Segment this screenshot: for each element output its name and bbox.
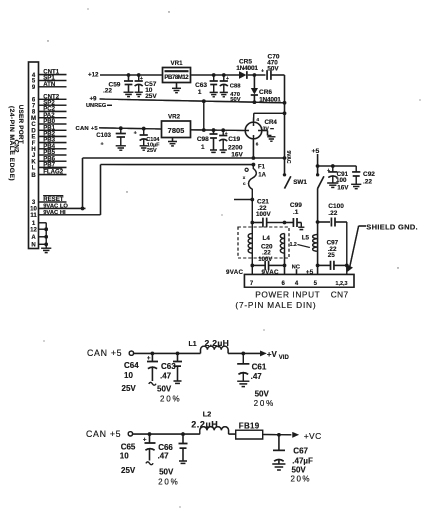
svg-text:SW1: SW1: [293, 179, 307, 186]
svg-text:N: N: [31, 243, 35, 249]
svg-text:VID: VID: [279, 355, 290, 361]
capacitor C100 .22: [318, 203, 347, 227]
svg-text:C61: C61: [252, 362, 267, 371]
wire filter2 rail: [133, 432, 200, 436]
svg-text:RESET: RESET: [43, 196, 64, 203]
svg-text:.47µF: .47µF: [292, 456, 313, 465]
capacitor C57 10 25V: [135, 75, 158, 100]
wire +12 rail after VR1: [191, 73, 240, 77]
svg-text:(7-PIN MALE DIN): (7-PIN MALE DIN): [235, 300, 316, 310]
label SW1: [293, 179, 307, 186]
svg-text:20%: 20%: [158, 477, 179, 486]
wire left winding vertical: [251, 200, 255, 234]
svg-text:1.2: 1.2: [290, 242, 297, 248]
CN7 pin 4: [295, 281, 299, 287]
wire C100 down right side: [345, 222, 349, 274]
wire filter1 rail: [134, 352, 201, 356]
wire L1 to output: [228, 352, 260, 356]
svg-text:50V: 50V: [255, 390, 270, 399]
CN7 pins 1,2,3: [336, 281, 348, 287]
svg-text:C88: C88: [230, 83, 241, 89]
wire fuse to C21 node: [234, 198, 254, 202]
ground (C64): [149, 382, 156, 385]
svg-text:L: L: [32, 166, 36, 172]
capacitor C91 100 16V: [327, 166, 349, 191]
svg-text:H: H: [31, 147, 35, 153]
ground (C57): [135, 92, 143, 96]
svg-text:.22: .22: [328, 210, 337, 217]
CN2 pin 1 (GND): [32, 221, 46, 227]
wire shield gnd leader: [350, 226, 366, 267]
arrow +VC: [292, 431, 321, 441]
label CN7: [331, 290, 349, 300]
svg-text:CR6: CR6: [259, 89, 272, 96]
svg-text:50V: 50V: [267, 66, 279, 73]
svg-text:11: 11: [30, 213, 37, 219]
svg-text:9VAC: 9VAC: [226, 269, 243, 276]
svg-text:M: M: [31, 116, 36, 122]
wire CAN +5 rail: [99, 126, 162, 130]
svg-text:12: 12: [30, 227, 37, 233]
svg-text:1: 1: [201, 144, 205, 151]
capacitor C63f .47 50V 20%: [157, 353, 182, 403]
ground (C88): [220, 92, 228, 96]
svg-text:K: K: [31, 159, 36, 165]
capacitor C64 10 25V: [122, 353, 159, 393]
svg-text:50V: 50V: [157, 385, 172, 394]
net label +5: [312, 148, 320, 155]
svg-text:PB7: PB7: [43, 162, 55, 169]
capacitor C20 labels: [258, 244, 273, 263]
svg-text:+: +: [327, 168, 330, 174]
net label +12: [88, 71, 99, 78]
ground (C61): [237, 381, 249, 386]
svg-text:9VAC HI: 9VAC HI: [43, 210, 66, 216]
svg-text:+: +: [101, 142, 104, 148]
wire L5 to pin 5: [316, 251, 320, 274]
wire +12 to C70: [248, 73, 266, 77]
arrowhead shield gnd: [346, 264, 352, 272]
svg-text:25V: 25V: [147, 148, 157, 154]
CN2 pin 11 9VAC HI: [30, 210, 66, 219]
wire CR4 top to right vertical: [254, 113, 285, 122]
connector CN2 body: [29, 62, 39, 249]
CN2 pin 9 ATN: [32, 80, 67, 91]
svg-text:25V: 25V: [122, 384, 137, 393]
CN2 pin E PB2: [31, 131, 66, 141]
CN2 pin J PB5: [32, 149, 67, 159]
fuse holder marks: [243, 168, 248, 186]
wire +12 rail: [100, 73, 163, 77]
CN2 pin 12 (GND): [30, 227, 48, 233]
svg-text:CR4: CR4: [265, 119, 278, 126]
label +5 (pin5): [306, 269, 314, 276]
wire winding bottoms: [251, 253, 287, 274]
svg-text:.22: .22: [363, 178, 372, 185]
ground (C103): [116, 146, 126, 150]
label 9VAC (pin6): [262, 269, 279, 276]
wire VR2 node to +9 rail: [203, 101, 205, 130]
svg-text:+: +: [226, 76, 229, 82]
capacitor C21 .22 100V: [252, 199, 286, 228]
svg-text:1N4001: 1N4001: [236, 65, 258, 72]
ground (CR4): [267, 137, 275, 141]
ground (C66f): [179, 461, 187, 463]
CN2 ground bus wire: [45, 223, 47, 248]
capacitor C63 1: [195, 75, 218, 96]
svg-text:c: c: [243, 181, 246, 186]
svg-text:+V: +V: [267, 350, 278, 359]
capacitor C67 .47uF 50V 20%: [273, 435, 313, 484]
svg-text:7805: 7805: [168, 126, 185, 135]
svg-text:20%: 20%: [160, 394, 181, 403]
wire C70 to right vertical: [271, 75, 286, 175]
svg-text:1A: 1A: [258, 172, 266, 178]
CN2 pin 3 RESET: [32, 196, 67, 207]
svg-text:10: 10: [124, 371, 133, 380]
svg-text:C65: C65: [121, 442, 136, 451]
connector CN2 rotated label CN2: [13, 140, 20, 153]
svg-text:+12: +12: [88, 71, 99, 78]
ground (C63): [210, 92, 218, 96]
CN2 pin 5 SP1: [32, 75, 67, 85]
svg-text:SHIELD GND.: SHIELD GND.: [366, 223, 418, 232]
svg-text:.22: .22: [262, 249, 271, 256]
CN2 pin 8 PC2: [32, 106, 67, 116]
CN2 pin D PB1: [31, 124, 66, 134]
svg-text:20%: 20%: [254, 399, 275, 408]
svg-text:L5: L5: [302, 234, 310, 241]
svg-text:x: x: [243, 175, 246, 180]
transformer L4 shield (dashed): [238, 227, 289, 258]
label (7-PIN MALE DIN): [235, 300, 316, 310]
capacitor C99 .1: [285, 202, 303, 227]
svg-text:F: F: [32, 141, 36, 147]
svg-text:.22: .22: [103, 88, 112, 95]
regulator VR2 7805: [162, 114, 191, 138]
svg-text:CN7: CN7: [331, 290, 349, 300]
svg-text:.47: .47: [158, 452, 170, 461]
CN2 pin K PB6: [31, 155, 66, 165]
svg-text:POWER INPUT: POWER INPUT: [255, 290, 320, 300]
switch SW1 pole A: [283, 173, 291, 188]
label 9VAC (pin7): [226, 269, 243, 276]
transformer L4 primary winding: [248, 234, 252, 254]
svg-text:UNREG: UNREG: [86, 103, 106, 109]
svg-text:+: +: [261, 69, 264, 75]
label L4: [263, 235, 271, 242]
CN7 pin 7: [250, 281, 254, 287]
wire 9VAC HI run to fuse: [67, 163, 256, 215]
capacitor C97 .22 25: [318, 240, 347, 270]
svg-text:C67: C67: [293, 446, 308, 455]
wire CR4 right pin to ground: [262, 131, 272, 136]
CN2 pin C PB0: [31, 118, 66, 128]
capacitor C98 1: [197, 130, 218, 151]
svg-text:20%: 20%: [291, 474, 312, 483]
svg-text:FB19: FB19: [239, 421, 260, 430]
ground (CN2): [41, 248, 51, 252]
transformer L4 secondary winding: [280, 234, 284, 254]
wire +9 unreg rail: [100, 99, 285, 104]
ground (C19): [220, 150, 227, 152]
svg-text:CAN +5: CAN +5: [87, 348, 122, 358]
ground (C92): [351, 184, 361, 188]
svg-text:D: D: [31, 129, 36, 135]
capacitor C70 470 50V: [261, 53, 280, 79]
connector CN7 body: [244, 274, 354, 287]
svg-text:25V: 25V: [145, 93, 157, 100]
svg-text:CAN +5: CAN +5: [86, 429, 121, 439]
inductor L5: [302, 234, 318, 251]
svg-text:L4: L4: [263, 235, 271, 242]
ground (C104): [140, 146, 148, 150]
svg-text:L2: L2: [203, 409, 212, 418]
svg-text:50V: 50V: [292, 465, 307, 474]
ground (C99): [298, 227, 304, 229]
wire +5 down: [316, 154, 320, 175]
svg-text:A: A: [31, 235, 36, 241]
svg-text:+9: +9: [89, 95, 97, 102]
label POWER INPUT: [255, 290, 320, 300]
rectifier CR4 3V: [245, 117, 277, 146]
ground (C91): [327, 183, 338, 187]
CN2 pin M PA2: [31, 112, 67, 122]
regulator VR1: [163, 60, 191, 83]
capacitor C59 .22: [103, 75, 133, 95]
ground (C63f): [174, 381, 182, 383]
capacitor C92 .22: [352, 166, 375, 185]
wire +5 branch right: [318, 164, 357, 168]
net label CAN +5 (filter 2): [86, 429, 121, 439]
svg-text:C64: C64: [124, 361, 139, 370]
svg-text:2.2µH: 2.2µH: [191, 420, 218, 430]
svg-text:+: +: [140, 76, 143, 82]
ground (VR1): [172, 83, 181, 93]
net label CAN +5 (filter 1): [87, 348, 122, 358]
svg-text:10: 10: [30, 207, 37, 213]
svg-text:USER PORT: USER PORT: [17, 105, 24, 144]
svg-text:.47: .47: [251, 372, 263, 381]
svg-text:9VAC: 9VAC: [262, 269, 279, 276]
CN2 pin A (GND): [31, 235, 48, 241]
svg-text:9VAC: 9VAC: [285, 151, 291, 164]
svg-text:1: 1: [198, 89, 202, 96]
net label +9 UNREG: [86, 95, 112, 109]
fuse F1 1A: [249, 164, 267, 199]
wire CR4 cathode down to 9VAC line: [252, 139, 254, 158]
svg-text:2.2µH: 2.2µH: [205, 338, 230, 348]
CN2 pin 7 SP2: [32, 99, 67, 109]
svg-text:B: B: [31, 173, 36, 179]
svg-text:VR2: VR2: [168, 114, 181, 121]
CN2 pin B FLAG2: [31, 168, 66, 179]
capacitor C103: [96, 128, 126, 147]
connector CN2 rotated label USER PORT: [17, 105, 24, 144]
capacitor C88 470 50V: [220, 75, 241, 103]
capacitor C66 .47 50V 20%: [158, 434, 188, 486]
svg-text:25V: 25V: [121, 466, 136, 475]
capacitor C20 (symbol): [252, 261, 284, 270]
inductor L1 2.2uH: [189, 338, 230, 353]
svg-text:3V: 3V: [263, 126, 270, 132]
capacitor C61 .47 50V 20%: [237, 353, 275, 408]
net label 9VAC (vertical): [285, 151, 291, 164]
CN2 pin 6 CNT2: [32, 93, 67, 103]
CN2 pin 4 CNT1: [32, 69, 67, 79]
wire switch B down: [316, 189, 320, 235]
svg-text:C98: C98: [197, 136, 209, 143]
svg-text:50V: 50V: [159, 467, 174, 476]
arrow +Vvid: [260, 350, 289, 361]
net label CAN +5 (top): [76, 126, 99, 132]
svg-text:10: 10: [120, 452, 129, 461]
switch SW1 pole B: [316, 173, 324, 188]
wire 9VAC LO run to fuse area: [67, 156, 287, 210]
capacitor C65 10 25V: [120, 434, 156, 475]
capacitor C19 2200 16V: [219, 130, 243, 158]
label SHIELD GND.: [366, 223, 418, 232]
terminal (filter 1): [129, 351, 133, 355]
svg-text:25: 25: [328, 252, 336, 259]
svg-text:C92: C92: [363, 171, 375, 178]
ground (VR2): [168, 138, 177, 146]
wire FB19 to output: [263, 433, 292, 437]
CN2 pin 10 9VAC LO: [30, 204, 68, 213]
svg-text:6: 6: [256, 141, 259, 146]
svg-text:J: J: [32, 153, 35, 159]
connector CN2 rotated label (24-PIN MALE EDGE): [8, 106, 15, 181]
svg-text:9VAC LO: 9VAC LO: [43, 204, 68, 210]
svg-text:FLAG2: FLAG2: [43, 169, 64, 176]
wire CAN rail after VR2: [191, 128, 247, 132]
svg-text:E: E: [31, 135, 35, 141]
ferrite bead FB19: [229, 421, 263, 439]
svg-text:C66: C66: [158, 443, 173, 452]
svg-text:.47: .47: [160, 371, 172, 380]
svg-text:C19: C19: [228, 136, 240, 143]
CN2 pin F PB3: [32, 137, 67, 147]
svg-text:C: C: [31, 122, 36, 128]
terminal (filter 2): [128, 432, 132, 436]
svg-text:1,2,3: 1,2,3: [336, 281, 348, 287]
svg-text:ATN: ATN: [43, 81, 55, 88]
svg-text:PB78M12: PB78M12: [164, 75, 189, 81]
svg-text:16V: 16V: [231, 151, 243, 158]
CN2 pin L PB7: [32, 162, 67, 172]
ground (C98): [210, 150, 217, 152]
ground (C67): [272, 464, 285, 470]
capacitor C104 10uF 25V: [134, 129, 161, 154]
svg-text:+5: +5: [306, 269, 314, 276]
svg-text:CAN +5: CAN +5: [76, 126, 99, 132]
ground (C65): [146, 462, 153, 465]
svg-text:F1: F1: [258, 164, 266, 170]
svg-text:4: 4: [256, 117, 259, 123]
label NC + stub pin4: [292, 265, 301, 275]
svg-text:L1: L1: [189, 341, 197, 348]
svg-text:.1: .1: [293, 209, 299, 216]
svg-text:C63: C63: [161, 362, 176, 371]
inductor L2 2.2uH: [191, 409, 228, 434]
diode CR6 1N4001: [251, 75, 281, 104]
svg-text:+VC: +VC: [304, 431, 322, 441]
svg-text:C63: C63: [195, 82, 207, 89]
label 3V (CR4): [263, 126, 274, 132]
diode CR5 1N4001: [236, 59, 258, 79]
svg-text:16V: 16V: [337, 184, 349, 191]
svg-text:+: +: [134, 131, 137, 137]
label 1.2 with leader: [290, 242, 310, 248]
CN7 pin 5: [314, 281, 318, 287]
CN2 pin N (GND): [31, 243, 48, 249]
svg-text:100V: 100V: [256, 211, 272, 218]
svg-text:CN2: CN2: [13, 140, 20, 153]
svg-text:C103: C103: [96, 132, 111, 139]
CN7 pin 6: [282, 281, 286, 287]
CN2 pin H PB4: [31, 143, 66, 153]
ground (C59): [124, 92, 134, 96]
svg-text:VR1: VR1: [170, 60, 183, 67]
